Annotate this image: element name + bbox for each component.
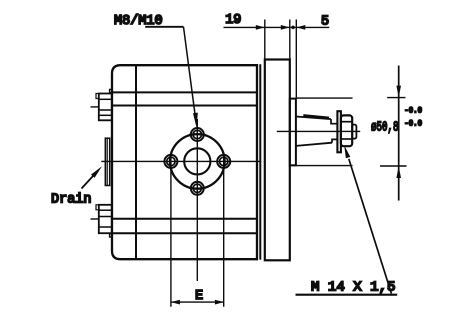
washer	[337, 111, 341, 152]
bolt hole top	[189, 128, 206, 141]
pump body outline	[112, 65, 257, 259]
extension line dia bottom a	[290, 165, 353, 167]
underline M8/M10	[145, 26, 183, 28]
bolt hole left	[164, 155, 177, 168]
bolt hole bottom	[189, 182, 206, 195]
extension line 19 left	[264, 20, 266, 60]
leader arrow Drain	[91, 166, 102, 178]
underline M 14 X 1,5	[296, 294, 398, 296]
dimension line E	[171, 301, 224, 303]
shaft centerline	[277, 130, 360, 132]
arrow pair diamond between 19 and 5	[290, 25, 296, 29]
svg-text:5: 5	[321, 14, 329, 29]
svg-text:-0.0: -0.0	[404, 107, 422, 116]
svg-text:ø50,8: ø50,8	[371, 120, 399, 136]
nut	[341, 115, 352, 146]
shaft key	[303, 115, 329, 118]
arrow 19 right	[281, 25, 290, 30]
shaft taper bottom edge	[296, 143, 332, 146]
extension line dia top b	[387, 97, 405, 99]
arrow 19 left	[256, 25, 265, 30]
drain boss	[105, 138, 109, 185]
leader arrow M 14 X 1,5	[344, 145, 350, 158]
top port boss	[91, 89, 113, 120]
body casting line top 2	[112, 105, 257, 107]
leader M 14 X 1,5	[349, 159, 392, 294]
extension line 5 right	[295, 20, 297, 99]
dimension line 19	[224, 26, 290, 28]
thread step top	[331, 119, 338, 124]
dimension line 5	[296, 26, 329, 28]
extension line E right	[223, 153, 225, 307]
leader arrow M8/M10	[193, 113, 198, 128]
leader M8/M10	[184, 27, 196, 118]
svg-text:M 14 X 1,5: M 14 X 1,5	[311, 281, 396, 296]
center bore circle	[184, 148, 210, 174]
arrow 5	[296, 25, 305, 30]
extension line dia top a	[296, 97, 353, 99]
extension line dia bottom b	[380, 165, 407, 167]
arrow E right	[215, 300, 224, 305]
body casting line bottom 2	[112, 232, 257, 234]
port flange circle	[170, 134, 225, 189]
body casting line bottom 1	[112, 218, 257, 220]
body joint line	[135, 65, 137, 259]
nut end tab	[352, 125, 356, 139]
arrow dia up	[396, 166, 401, 178]
arrow dia down	[396, 86, 401, 98]
pilot spigot boss	[290, 99, 296, 166]
shaft taper top edge	[296, 117, 331, 120]
dimension line dia vertical	[398, 66, 400, 201]
svg-text:19: 19	[225, 13, 241, 28]
extension line 19 right	[289, 20, 291, 60]
thread step bottom	[332, 139, 338, 142]
mounting flange plate	[265, 60, 290, 261]
body right edge second line	[259, 64, 261, 259]
bottom port boss	[91, 205, 113, 237]
svg-text:E: E	[195, 289, 203, 304]
body casting line top 1	[112, 91, 257, 93]
horizontal centerline of port circle	[101, 160, 260, 162]
svg-text:Drain: Drain	[51, 193, 92, 208]
extension line E left	[170, 153, 172, 307]
svg-text:-0.0: -0.0	[404, 119, 422, 128]
vertical centerline of port circle	[196, 119, 198, 281]
arrow E left	[171, 300, 180, 305]
leader Drain	[82, 176, 94, 189]
bolt hole right	[217, 155, 230, 168]
